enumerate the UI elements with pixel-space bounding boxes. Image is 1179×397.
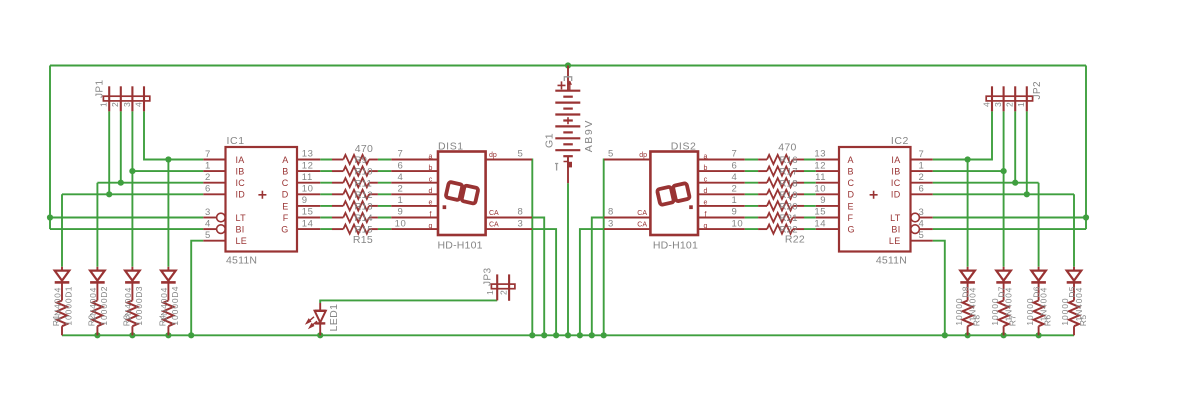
svg-text:3: 3 [608, 218, 614, 229]
svg-text:HD-H101: HD-H101 [438, 239, 483, 251]
svg-text:IA: IA [891, 155, 900, 165]
DIS2 pin 6 (b) stub [698, 170, 745, 172]
svg-text:IB: IB [891, 167, 900, 177]
svg-text:R1: R1 [51, 315, 61, 327]
IC2 pin 1 (IB) stub [911, 170, 933, 172]
svg-text:R5: R5 [1078, 315, 1088, 327]
LED LED1 body [319, 303, 321, 311]
svg-text:1: 1 [919, 161, 925, 172]
junction on ground bus at x=556.1 [553, 332, 559, 338]
JP2 pin 4 [991, 86, 993, 111]
junction on ground bus at x=603.7 [601, 332, 607, 338]
diode D6 [1038, 267, 1040, 271]
svg-text:1: 1 [1016, 102, 1026, 107]
svg-text:7: 7 [398, 149, 404, 160]
svg-text:10000: 10000 [63, 297, 73, 325]
svg-text:g: g [429, 223, 433, 230]
resistor R10 (row b) [332, 170, 343, 172]
resistor R8 [963, 301, 973, 327]
battery G1 cell 6 short plate [563, 155, 573, 157]
resistor R19 (row d) [793, 193, 804, 195]
JP3 pin 2 [508, 274, 510, 300]
junction D8 on IA2 [965, 156, 971, 162]
junction on ground bus at x=132.4 [129, 332, 135, 338]
wire net BI2 [933, 228, 1086, 230]
svg-text:4: 4 [981, 102, 991, 107]
battery G1 cell 4 short plate [563, 131, 573, 133]
DIS1 pin 1 (e) stub [391, 205, 438, 207]
junction JP2-3/D7 on IB2 [1001, 168, 1007, 174]
svg-text:a: a [429, 153, 433, 160]
display DIS2 outline [650, 152, 698, 236]
junction on ground bus at x=579.9 [577, 332, 583, 338]
svg-text:B: B [848, 167, 854, 177]
svg-text:470: 470 [778, 141, 796, 153]
DIS2 seven-segment glyph [657, 183, 690, 205]
svg-text:3: 3 [205, 207, 211, 218]
svg-text:4: 4 [919, 219, 925, 230]
DIS2 pin 4 (c) stub [698, 182, 745, 184]
DIS2 pin 5 (dp) stub [604, 159, 650, 161]
wire right segment net b [745, 170, 816, 172]
svg-text:R12: R12 [355, 190, 373, 201]
battery G1 minus pin glyph [564, 158, 568, 168]
svg-text:ID: ID [236, 190, 246, 200]
svg-text:R6: R6 [1043, 315, 1053, 327]
svg-text:HD-H101: HD-H101 [653, 239, 698, 251]
svg-text:9: 9 [732, 207, 738, 218]
DIS2 pin 3 (CA) stub [604, 228, 650, 230]
svg-text:2: 2 [205, 172, 211, 183]
resistor R17 (row b) [793, 170, 804, 172]
svg-text:1: 1 [99, 102, 109, 107]
IC1 pin 1 (IB) stub [203, 170, 225, 172]
resistor R20 (row e) [793, 205, 804, 207]
svg-text:2: 2 [1005, 102, 1015, 107]
resistor R9 (row a) [332, 159, 343, 161]
DIS1 pin 2 (d) stub [391, 193, 438, 195]
svg-text:10000: 10000 [1060, 297, 1070, 325]
IC1 pin 6 (ID) stub [203, 193, 225, 195]
IC1 pin 11 (C) stub [297, 182, 320, 184]
wire net LT1 [50, 217, 203, 219]
svg-text:3: 3 [919, 207, 925, 218]
svg-text:IC: IC [236, 178, 246, 188]
op IC2 outline [839, 147, 911, 252]
IC2 pin 12 (B) stub [816, 170, 839, 172]
svg-text:4511N: 4511N [876, 254, 907, 266]
junction battery + on rail [565, 62, 571, 68]
svg-text:7: 7 [732, 149, 738, 160]
battery G1 plus mark [558, 81, 566, 89]
wire left segment net f [320, 217, 391, 219]
battery G1 pin 1 glyph [555, 164, 558, 171]
wire +9V top rail [50, 65, 1086, 67]
IC2 pin 14 (G) stub [816, 228, 839, 230]
wire right segment net f [745, 217, 816, 219]
jumper JP2 header bar [986, 96, 1032, 101]
diode D1 [61, 267, 63, 271]
svg-text:10000: 10000 [134, 297, 144, 325]
svg-text:DIS2: DIS2 [671, 140, 697, 152]
svg-text:2: 2 [110, 102, 120, 107]
svg-text:LE: LE [236, 236, 248, 246]
svg-text:A: A [282, 155, 288, 165]
DIS2 pin 1 (e) stub [698, 205, 745, 207]
DIS1 pin 10 (g) stub [391, 228, 438, 230]
IC1 pin 9 (E) stub [297, 205, 320, 207]
junction on ground bus at x=591.8 [589, 332, 595, 338]
battery G1 cell 5 short plate [563, 143, 573, 145]
svg-text:AB9V: AB9V [583, 119, 595, 152]
svg-text:R2: R2 [86, 315, 96, 327]
svg-text:CA: CA [637, 210, 647, 217]
resistor R11 (row c) [332, 182, 343, 184]
battery G1 cell 5 long plate [555, 137, 580, 139]
DIS2 decimal point [689, 205, 693, 209]
wire left segment net e [320, 205, 391, 207]
svg-text:ID: ID [891, 190, 901, 200]
svg-text:5: 5 [919, 230, 925, 241]
svg-text:10: 10 [814, 184, 826, 195]
LED1 emission arrows [307, 317, 317, 328]
svg-text:10000: 10000 [990, 297, 1000, 325]
svg-text:9: 9 [302, 195, 308, 206]
IC2 pin 11 (C) stub [816, 182, 839, 184]
svg-text:F: F [283, 213, 289, 223]
diode D4 [167, 267, 169, 271]
junction on ground bus at x=1038.6 [1036, 332, 1042, 338]
JP1 pin 1 [108, 86, 110, 111]
battery G1 pin 2 glyph [564, 77, 571, 81]
svg-text:D: D [848, 190, 855, 200]
svg-text:R4: R4 [157, 315, 167, 327]
svg-text:R9: R9 [355, 155, 368, 166]
resistor R18 (row c) [793, 182, 804, 184]
resistor R14 (row f) [332, 217, 343, 219]
junction on ground bus at x=568 [565, 332, 571, 338]
wire DIS2 CA8 to bus [592, 218, 604, 336]
svg-text:6: 6 [398, 160, 404, 171]
svg-text:12: 12 [814, 160, 826, 171]
svg-text:1: 1 [732, 195, 738, 206]
svg-text:C: C [848, 178, 855, 188]
wire DIS2 dp to bus [603, 160, 605, 336]
svg-text:1: 1 [485, 290, 495, 295]
svg-text:CA: CA [489, 210, 499, 217]
wire net IA2 (JP2-4 to IC2 IA) [933, 111, 992, 159]
junction JP1-3/D3 on IB1 [129, 168, 135, 174]
IC1 pin 10 (D) stub [297, 193, 320, 195]
svg-text:3: 3 [993, 102, 1003, 107]
svg-text:JP1: JP1 [95, 80, 106, 98]
resistor R2 [92, 301, 102, 327]
svg-text:CA: CA [637, 222, 647, 229]
battery G1 cell 2 short plate [563, 107, 573, 109]
svg-text:R20: R20 [780, 202, 798, 213]
battery G1 cell 3 long plate [555, 113, 580, 115]
svg-text:2: 2 [732, 184, 738, 195]
svg-text:JP3: JP3 [483, 268, 494, 286]
svg-text:dp: dp [639, 152, 647, 159]
IC1 pin 2 (IC) stub [203, 182, 225, 184]
junction on ground bus at x=97.4 [94, 332, 100, 338]
resistor R16 (row a) [793, 159, 804, 161]
svg-text:12: 12 [302, 160, 314, 171]
wire net ID1 (JP1-1 to IC1 ID and D1 chain) [62, 111, 203, 266]
IC2 pin 5 (LE) stub [911, 240, 933, 242]
svg-text:B: B [282, 167, 288, 177]
JP2 pin 3 [1003, 86, 1005, 111]
DIS1 pin 9 (f) stub [391, 217, 438, 219]
svg-text:R10: R10 [355, 167, 373, 178]
JP1 pin 3 [131, 86, 133, 111]
svg-text:10000: 10000 [170, 297, 180, 325]
resistor R6 [1034, 301, 1044, 327]
wire ground bus [62, 334, 1074, 336]
svg-text:D4: D4 [170, 286, 180, 298]
svg-text:1: 1 [205, 161, 211, 172]
wire net IB2 (JP2-3 to IC2 IB and D7 chain) [933, 111, 1004, 266]
diode D8 [967, 267, 969, 271]
svg-text:D: D [282, 190, 289, 200]
svg-text:JP2: JP2 [1032, 81, 1043, 99]
svg-text:1: 1 [398, 195, 404, 206]
op IC1 outline [226, 147, 298, 252]
battery G1 cell 4 long plate [555, 125, 580, 127]
svg-text:6: 6 [732, 160, 738, 171]
svg-text:7: 7 [919, 149, 925, 160]
svg-text:5: 5 [608, 149, 614, 160]
svg-text:14: 14 [814, 218, 826, 229]
diode D5 [1073, 267, 1075, 271]
IC2 pin 7 (IA) stub [911, 159, 933, 161]
junction JP1-2 on IC1in [118, 180, 124, 186]
resistor R12 (row d) [332, 193, 343, 195]
svg-text:d: d [704, 188, 708, 195]
svg-text:dp: dp [489, 152, 497, 159]
svg-text:13: 13 [814, 149, 826, 160]
svg-text:E: E [282, 201, 288, 211]
battery G1 cell 1 long plate [555, 90, 580, 92]
resistor R1 [57, 301, 67, 327]
JP1 pin 4 [143, 86, 145, 111]
IC1 pin 15 (F) stub [297, 217, 320, 219]
IC2 pin 2 (IC) stub [911, 182, 933, 184]
svg-text:c: c [429, 177, 433, 184]
svg-text:R19: R19 [780, 190, 798, 201]
svg-text:3: 3 [518, 218, 524, 229]
IC1 pin 3 (LT) stub with inverting circle [203, 217, 216, 219]
IC2 pin 10 (D) stub [816, 193, 839, 195]
wire left segment net g [320, 228, 391, 230]
svg-text:R21: R21 [780, 213, 798, 224]
junction JP2-1 on ID2 [1024, 191, 1030, 197]
svg-text:e: e [704, 200, 708, 207]
svg-text:R14: R14 [355, 213, 373, 224]
IC1 pin 7 (IA) stub [203, 159, 225, 161]
wire net IA1 (JP1-4 to IC1 IA) [144, 111, 203, 159]
wire right segment net a [745, 159, 816, 161]
DIS1 seven-segment glyph [446, 182, 479, 204]
IC2 pin 13 (A) stub [816, 159, 839, 161]
battery G1 mid tick [567, 117, 569, 124]
svg-text:6: 6 [919, 184, 925, 195]
svg-text:R22: R22 [785, 234, 805, 246]
junction on ground bus at x=967.6 [965, 332, 971, 338]
resistor R7 [999, 301, 1009, 327]
svg-text:f: f [430, 211, 432, 218]
junction LT2 on right border [1083, 214, 1089, 220]
junction LE1 on bus [188, 332, 194, 338]
wire right segment net d [745, 193, 816, 195]
svg-text:470: 470 [355, 143, 373, 155]
svg-text:R15: R15 [353, 234, 373, 246]
svg-text:LE: LE [889, 236, 901, 246]
svg-text:R13: R13 [355, 202, 373, 213]
svg-text:4: 4 [398, 172, 404, 183]
wire net BI1 [50, 228, 203, 230]
svg-text:D3: D3 [134, 286, 144, 298]
DIS2 pin 7 (a) stub [698, 159, 745, 161]
svg-text:a: a [704, 153, 708, 160]
jumper JP1 header bar [103, 96, 149, 101]
wire net LE2 to ground bus [933, 241, 945, 336]
junction on ground bus at x=532.3 [529, 332, 535, 338]
svg-text:11: 11 [815, 172, 826, 183]
svg-text:13: 13 [302, 149, 314, 160]
DIS1 decimal point [443, 205, 447, 209]
DIS1 pin 7 (a) stub [391, 159, 438, 161]
wire DIS1 CA3 to bus [532, 229, 556, 335]
junction on ground bus at x=1003.6 [1001, 332, 1007, 338]
svg-text:F: F [848, 213, 854, 223]
junction LT1 on left border [47, 214, 53, 220]
wire DIS1 dp to bus [531, 160, 533, 336]
resistor R5 [1069, 301, 1079, 327]
svg-text:G: G [848, 225, 855, 235]
junction on ground bus at x=168.4 [165, 332, 171, 338]
junction LED1 on bus [317, 332, 323, 338]
resistor R4 [163, 301, 173, 327]
junction on ground bus at x=544.2 [541, 332, 547, 338]
svg-text:D1: D1 [63, 286, 73, 298]
svg-text:b: b [429, 165, 433, 172]
wire DIS2 CA3 to bus [580, 229, 604, 335]
svg-text:8: 8 [608, 207, 614, 218]
svg-text:D2: D2 [99, 286, 109, 298]
svg-text:10000: 10000 [1025, 297, 1035, 325]
wire battery minus to bus [567, 183, 569, 335]
junction JP1-1 on ID1 [106, 191, 112, 197]
IC2 pin 9 (E) stub [816, 205, 839, 207]
svg-text:6: 6 [205, 184, 211, 195]
svg-text:A: A [848, 155, 854, 165]
svg-text:8: 8 [518, 207, 524, 218]
diode D3 [131, 267, 133, 271]
battery G1 bottom lead [567, 156, 569, 183]
IC1 pin 12 (B) stub [297, 170, 320, 172]
wire DIS1 CA8 to bus [532, 218, 544, 336]
svg-text:G1: G1 [544, 133, 556, 148]
IC1 pin 4 (BI) stub with inverting circle [203, 228, 216, 230]
JP2 pin 1 [1026, 86, 1028, 111]
IC2 pin 4 (BI) stub with inverting circle [919, 228, 932, 230]
svg-text:10: 10 [302, 184, 314, 195]
battery G1 cell 6 long plate [555, 149, 580, 151]
JP1 pin 2 [120, 86, 122, 111]
resistor R15 (row g) [332, 228, 343, 230]
DIS1 pin 4 (c) stub [391, 182, 438, 184]
DIS1 pin 6 (b) stub [391, 170, 438, 172]
battery G1 cell 1 short plate [563, 96, 573, 98]
wire right segment net e [745, 205, 816, 207]
svg-text:14: 14 [302, 218, 314, 229]
junction D4 on IA1 [165, 156, 171, 162]
svg-text:R3: R3 [121, 315, 131, 327]
svg-text:DIS1: DIS1 [438, 140, 464, 152]
wire net IA2 drop to D8 chain [967, 160, 969, 267]
IC2 pin 3 (LT) stub with inverting circle [919, 217, 932, 219]
svg-text:4: 4 [732, 172, 738, 183]
svg-text:g: g [704, 223, 708, 230]
diode D2 [96, 267, 98, 271]
wire net IB1 (JP1-3 to IC1 IB and D3 chain) [132, 111, 203, 266]
junction JP2-2 on IC2in [1012, 180, 1018, 186]
svg-text:CA: CA [489, 222, 499, 229]
display DIS1 outline [438, 152, 486, 236]
svg-text:b: b [704, 165, 708, 172]
svg-text:2: 2 [919, 172, 925, 183]
diode D7 [1003, 267, 1005, 271]
wire net LE1 to ground bus [191, 241, 203, 336]
battery G1 cell 3 short plate [563, 119, 573, 121]
svg-text:10000: 10000 [99, 297, 109, 325]
IC2 pin 15 (F) stub [816, 217, 839, 219]
svg-text:4: 4 [205, 219, 211, 230]
svg-text:15: 15 [302, 207, 314, 218]
svg-text:R16: R16 [780, 155, 798, 166]
wire net IA1 drop to D4 chain [167, 160, 169, 267]
svg-text:R17: R17 [780, 167, 798, 178]
svg-text:c: c [704, 177, 708, 184]
wire net IC1in (JP1-2 to IC1 IC and D2 chain) [97, 111, 203, 266]
IC1 polarity plus mark [258, 191, 266, 199]
DIS2 pin 8 (CA) stub [604, 217, 650, 219]
svg-text:IC: IC [891, 178, 901, 188]
svg-text:d: d [429, 188, 433, 195]
svg-text:e: e [429, 200, 433, 207]
DIS2 pin 2 (d) stub [698, 193, 745, 195]
resistor R13 (row e) [332, 205, 343, 207]
svg-text:10: 10 [732, 218, 744, 229]
resistor R3 [127, 301, 137, 327]
IC1 pin 13 (A) stub [297, 159, 320, 161]
svg-text:9: 9 [820, 195, 826, 206]
resistor R21 (row f) [793, 217, 804, 219]
wire right segment net c [745, 182, 816, 184]
DIS1 pin 3 (CA) stub [486, 228, 532, 230]
battery G1 cell 2 long plate [555, 101, 580, 103]
svg-text:7: 7 [205, 149, 211, 160]
svg-text:IA: IA [236, 155, 245, 165]
svg-text:IB: IB [236, 167, 245, 177]
DIS1 pin 5 (dp) stub [486, 159, 532, 161]
JP3 pin 1 [496, 274, 498, 300]
battery G1 plus pin tick [569, 81, 571, 90]
svg-text:R7: R7 [1008, 315, 1018, 327]
battery G1 top lead [567, 66, 569, 91]
